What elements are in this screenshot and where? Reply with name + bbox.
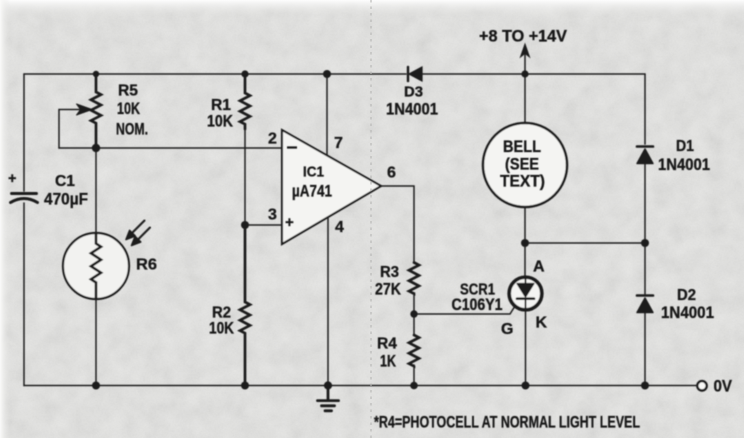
svg-text:1N4001: 1N4001 (386, 101, 438, 119)
wire: right rail top corner to D1 (644, 74, 646, 144)
svg-text:A: A (533, 259, 545, 276)
diode D2 (637, 296, 653, 313)
svg-text:R6: R6 (136, 257, 157, 274)
resistor R4 (409, 335, 419, 366)
wire: pin7 supply lead (326, 74, 328, 155)
wire: anode junction row (525, 242, 645, 244)
resistor R1 (240, 74, 250, 129)
wire: right rail D1 to junction (644, 164, 646, 294)
svg-text:10K: 10K (207, 113, 233, 131)
resistor R2 (240, 225, 250, 386)
junction dot anode row left (521, 239, 529, 247)
wire: output pin6 to R3 column (381, 186, 414, 263)
resistor R5 (potentiometer body) (91, 74, 101, 148)
label A (533, 259, 545, 276)
svg-text:3: 3 (268, 207, 277, 224)
junction dot top of pin7 (323, 70, 331, 78)
op-amp plus sign (285, 214, 294, 231)
label G (501, 321, 513, 338)
label D2 value (661, 287, 714, 322)
wire: SCR anode lead (524, 243, 526, 278)
top white fade of scan (0, 0, 744, 16)
label R4 value (377, 336, 397, 371)
svg-text:R1: R1 (211, 97, 231, 114)
label C1 value (44, 173, 88, 209)
diode D3 (408, 67, 422, 81)
svg-text:BELL: BELL (503, 138, 541, 156)
svg-text:G: G (501, 321, 513, 338)
svg-text:K: K (536, 315, 548, 332)
label R3 value (375, 264, 401, 299)
label R1 value (207, 97, 233, 131)
SCR1 circle (509, 277, 542, 310)
svg-text:C1: C1 (55, 173, 75, 190)
pin label 7 (334, 135, 343, 152)
svg-text:1N4001: 1N4001 (661, 304, 714, 322)
label D3 value (386, 85, 438, 119)
label K (536, 315, 548, 332)
op-amp minus sign (287, 146, 297, 148)
svg-text:µA741: µA741 (292, 182, 332, 201)
svg-text:27K: 27K (375, 281, 401, 299)
capacitor C1 (11, 194, 38, 203)
wire: right rail D2 to bottom (644, 313, 646, 386)
label R2 value (209, 305, 234, 338)
junction dot R5 bottom (92, 144, 100, 152)
wire: left rail lower (C1 to bottom) (23, 203, 25, 386)
ground symbol (318, 386, 339, 411)
pin label 3 (268, 207, 277, 224)
svg-text:470µF: 470µF (44, 191, 88, 209)
label C1 plus (8, 171, 16, 187)
pin label 2 (268, 131, 277, 148)
svg-text:0V: 0V (714, 377, 733, 396)
supply arrow up (521, 44, 530, 74)
svg-text:10K: 10K (117, 100, 140, 118)
wire: top rail left segment (24, 73, 406, 75)
svg-text:D2: D2 (677, 287, 696, 304)
photocell R6 circle (63, 233, 129, 299)
0V terminal circle (697, 381, 706, 390)
svg-text:+8 TO +14V: +8 TO +14V (479, 28, 567, 46)
svg-text:2: 2 (268, 131, 277, 148)
svg-text:R4: R4 (377, 336, 397, 353)
svg-text:TEXT): TEXT) (500, 173, 545, 191)
wire: left rail upper (to C1) (23, 74, 25, 191)
svg-text:IC1: IC1 (303, 164, 324, 181)
svg-text:R5: R5 (118, 83, 138, 100)
photocell R6 internal resistor (91, 233, 101, 299)
label IC1 (292, 164, 332, 201)
diode D1 (637, 147, 653, 164)
svg-text:R3: R3 (380, 264, 399, 281)
label 0V (714, 377, 733, 396)
label R6 (136, 257, 157, 274)
junction dot supply arrow (521, 70, 528, 77)
wire: pin3 row (245, 224, 282, 226)
wire: bell bottom lead to junction (524, 207, 526, 243)
op-amp IC1 triangle (282, 130, 381, 244)
label R5 value (116, 83, 148, 139)
junction dot bottom D2 (641, 382, 649, 390)
wire: R3 to junction (413, 293, 415, 335)
junction dot bottom R6 (92, 382, 100, 390)
svg-text:(SEE: (SEE (505, 156, 539, 174)
svg-text:D3: D3 (404, 85, 423, 101)
svg-text:7: 7 (334, 135, 343, 152)
wire: R6 bottom lead (95, 299, 97, 386)
svg-text:6: 6 (387, 165, 396, 182)
junction dot bottom SCR (522, 382, 530, 390)
wire: bottom rail (24, 385, 696, 387)
bell circle (483, 123, 567, 207)
svg-text:C106Y1: C106Y1 (452, 296, 503, 314)
SCR1 thyristor symbol (517, 278, 534, 309)
svg-text:10K: 10K (209, 320, 234, 338)
pin label 6 (387, 165, 396, 182)
wire: SCR cathode lead (525, 309, 527, 386)
svg-text:1K: 1K (380, 353, 396, 371)
label BELL text (500, 138, 545, 191)
svg-text:+: + (285, 214, 294, 231)
svg-text:4: 4 (335, 219, 344, 236)
junction dot bottom pin4 (324, 381, 332, 389)
wire: bell top lead (524, 74, 526, 123)
junction dot top of R1 (241, 70, 248, 77)
label +8 TO +14V (479, 28, 567, 46)
wire: R6 top lead (95, 148, 97, 233)
wire: pin4 ground lead (327, 217, 329, 386)
note R4 photocell (374, 413, 640, 432)
pin label 4 (335, 219, 344, 236)
photocell light arrows (126, 221, 150, 246)
junction dot pin3 (241, 221, 249, 229)
resistor R3 (409, 263, 419, 294)
scan fold dotted artifact (370, 0, 372, 438)
wire: R4 to bottom rail (413, 365, 415, 386)
junction dot top of R5 (93, 71, 99, 77)
wire: top rail right segment (422, 73, 645, 75)
wire: R1 to pin3 junction (244, 129, 246, 225)
svg-text:+: + (8, 171, 16, 187)
label D1 value (658, 138, 710, 174)
wire: gate wire to SCR (414, 302, 518, 314)
junction dot anode row right (641, 239, 649, 247)
wire: pin2 row from wiper/R5 to op-amp (59, 147, 282, 149)
label SCR1 value (452, 282, 503, 315)
wire: R5 wiper arm (59, 104, 92, 148)
svg-text:*R4=PHOTOCELL AT NORMAL LIGHT: *R4=PHOTOCELL AT NORMAL LIGHT LEVEL (374, 413, 640, 432)
junction dot bottom R2 (241, 382, 249, 390)
svg-text:D1: D1 (676, 138, 694, 155)
left white fade of scan (0, 0, 10, 438)
svg-text:1N4001: 1N4001 (658, 156, 710, 174)
junction dot bottom R4 (410, 382, 418, 390)
svg-text:NOM.: NOM. (116, 121, 148, 139)
junction dot gate/R3/R4 (410, 310, 417, 317)
